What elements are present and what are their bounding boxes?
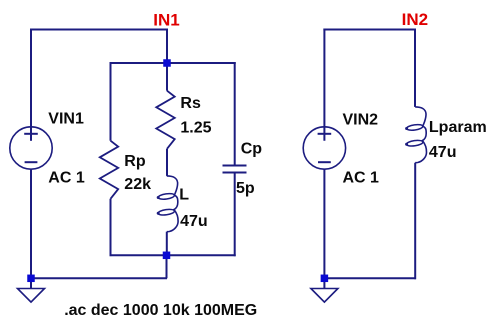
svg-text:AC 1: AC 1 (48, 169, 85, 186)
svg-text:VIN2: VIN2 (343, 112, 379, 129)
svg-text:Lparam: Lparam (429, 119, 487, 136)
svg-text:IN1: IN1 (153, 10, 179, 29)
svg-text:47u: 47u (429, 144, 457, 161)
svg-text:Cp: Cp (241, 141, 263, 158)
svg-text:VIN1: VIN1 (48, 111, 84, 128)
svg-text:5p: 5p (236, 180, 255, 197)
svg-text:.ac dec 1000 10k 100MEG: .ac dec 1000 10k 100MEG (64, 302, 257, 319)
svg-text:47u: 47u (180, 213, 208, 230)
svg-text:22k: 22k (124, 176, 151, 193)
svg-text:1.25: 1.25 (180, 119, 211, 136)
svg-text:IN2: IN2 (402, 10, 428, 29)
svg-text:Rp: Rp (124, 153, 146, 170)
svg-text:L: L (179, 186, 189, 203)
svg-text:AC 1: AC 1 (343, 169, 380, 186)
svg-text:Rs: Rs (180, 95, 201, 112)
